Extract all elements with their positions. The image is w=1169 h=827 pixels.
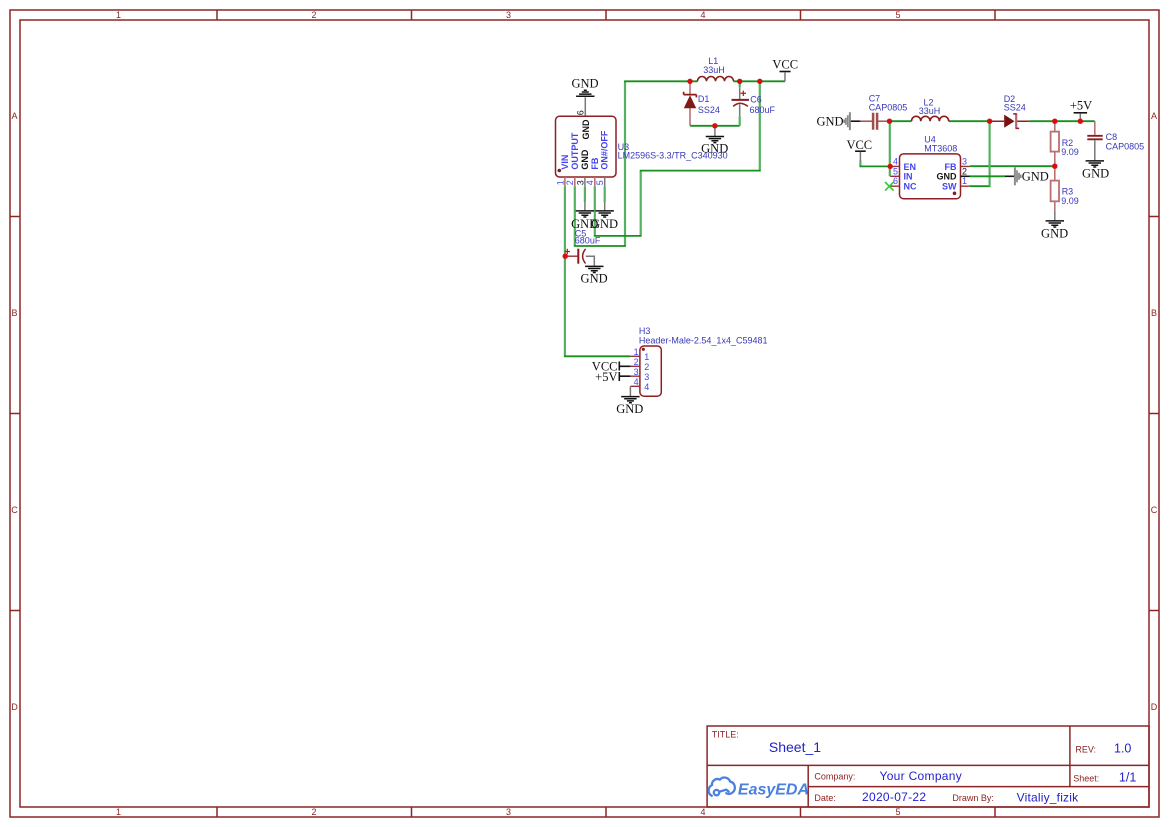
inductor L2 33uH — [912, 98, 949, 122]
svg-text:+5V: +5V — [595, 370, 617, 384]
svg-text:33uH: 33uH — [703, 65, 725, 75]
power flag VCC top — [772, 57, 798, 81]
svg-text:A: A — [1151, 111, 1157, 121]
svg-text:2: 2 — [565, 180, 575, 185]
junction FB R2 R3 node — [1052, 164, 1057, 169]
svg-text:GND: GND — [1041, 227, 1068, 241]
wire L2 to D2 — [949, 120, 990, 122]
inductor L1 33uH — [698, 56, 734, 81]
svg-text:3: 3 — [634, 367, 639, 377]
wire top rail L1 right to VCC — [733, 80, 785, 82]
svg-text:3: 3 — [575, 180, 585, 185]
wire GND pin2 of U4 — [970, 175, 1014, 177]
svg-text:1: 1 — [962, 176, 967, 186]
diode D2 SS24 — [990, 94, 1030, 129]
svg-text:A: A — [11, 111, 17, 121]
svg-text:5: 5 — [895, 807, 900, 817]
svg-text:NC: NC — [904, 182, 917, 192]
junction +5V tap — [1078, 119, 1083, 124]
diode D1 SS24 — [684, 81, 720, 126]
title block — [707, 726, 1149, 807]
svg-text:C: C — [1151, 505, 1158, 515]
capacitor C6 680uF — [732, 81, 776, 126]
junction C7 L2 node — [887, 119, 892, 124]
resistor R3 9.09 — [1051, 166, 1079, 211]
svg-text:VIN: VIN — [560, 155, 570, 170]
svg-text:3: 3 — [506, 10, 511, 20]
wire pin3 of U3 to ground — [584, 186, 586, 202]
svg-text:33uH: 33uH — [919, 106, 941, 116]
svg-text:2020-07-22: 2020-07-22 — [862, 790, 926, 804]
svg-text:EasyEDA: EasyEDA — [738, 781, 809, 798]
svg-text:MT3608: MT3608 — [924, 143, 957, 153]
junction L1 right C6 — [737, 79, 742, 84]
connector H3 Header-Male-2.54_1x4 — [630, 326, 767, 396]
junction L2 D2 SW node — [987, 119, 992, 124]
svg-text:6: 6 — [893, 176, 898, 186]
ground under U3 pin 3 — [571, 202, 598, 231]
wire FB to R2 R3 node — [970, 165, 1055, 167]
svg-text:GND: GND — [817, 114, 844, 128]
svg-text:SW: SW — [942, 182, 957, 192]
svg-text:SS24: SS24 — [698, 105, 720, 115]
svg-text:FB: FB — [590, 157, 600, 169]
svg-text:VCC: VCC — [846, 138, 872, 152]
svg-text:680uF: 680uF — [750, 105, 776, 115]
svg-text:GND: GND — [701, 142, 728, 156]
svg-text:VCC: VCC — [772, 57, 798, 71]
ground under C8 — [1082, 161, 1109, 181]
svg-text:Sheet_1: Sheet_1 — [769, 739, 821, 755]
wire D1 C6 bottom rail — [690, 125, 740, 127]
wire D2 to C8 output rail — [1029, 120, 1094, 122]
svg-text:Date:: Date: — [814, 793, 836, 803]
svg-text:9.09: 9.09 — [1061, 196, 1079, 206]
svg-text:4: 4 — [700, 10, 705, 20]
wire C7 node down to EN and IN — [889, 121, 891, 176]
svg-text:3: 3 — [962, 156, 967, 166]
svg-text:H3: H3 — [639, 326, 651, 336]
svg-text:1: 1 — [555, 180, 565, 185]
net port GND at C7 — [817, 112, 861, 130]
svg-text:TITLE:: TITLE: — [712, 730, 739, 740]
ground under U3 pin 5 — [591, 202, 618, 231]
svg-text:2: 2 — [311, 807, 316, 817]
svg-text:1: 1 — [116, 807, 121, 817]
capacitor C8 CAP0805 — [1087, 121, 1144, 161]
junction R2 top node — [1052, 119, 1057, 124]
svg-text:ON#/OFF: ON#/OFF — [600, 130, 610, 170]
svg-text:GND: GND — [591, 217, 618, 231]
junction VIN-C5 — [563, 254, 568, 259]
net port GND at U4 pin2 — [1015, 167, 1049, 185]
wire SW riser — [970, 121, 991, 186]
svg-text:B: B — [1151, 308, 1157, 318]
junction L1 left D1 — [687, 79, 692, 84]
svg-text:1: 1 — [116, 10, 121, 20]
svg-text:4: 4 — [585, 180, 595, 185]
svg-text:1: 1 — [644, 352, 649, 362]
svg-text:GND: GND — [1082, 167, 1109, 181]
svg-text:GND: GND — [581, 272, 608, 286]
svg-text:D1: D1 — [698, 94, 710, 104]
net label VCC at H3 pin2 — [592, 359, 631, 373]
svg-text:1: 1 — [634, 347, 639, 357]
svg-text:1.0: 1.0 — [1114, 742, 1131, 756]
svg-text:5: 5 — [895, 10, 900, 20]
svg-text:OUTPUT: OUTPUT — [570, 132, 580, 170]
ground at C5 — [581, 266, 608, 285]
svg-text:5: 5 — [595, 180, 605, 185]
svg-text:GND: GND — [580, 149, 590, 170]
svg-text:3: 3 — [506, 807, 511, 817]
wire VCC to EN — [860, 160, 891, 166]
svg-text:5: 5 — [893, 166, 898, 176]
svg-text:Your Company: Your Company — [880, 769, 963, 783]
U4 no-connect cross — [885, 182, 894, 191]
svg-text:C: C — [11, 505, 18, 515]
svg-text:B: B — [11, 308, 17, 318]
ground at H3 pin4 — [616, 386, 643, 416]
svg-text:4: 4 — [634, 377, 639, 387]
svg-text:D: D — [11, 702, 18, 712]
svg-text:D: D — [1151, 702, 1158, 712]
IC U3 LM2596S-3.3 — [555, 110, 727, 186]
svg-text:4: 4 — [644, 382, 649, 392]
svg-text:C6: C6 — [750, 95, 762, 105]
wire pin5 of U3 to ground — [604, 186, 606, 202]
capacitor C5 680uF — [565, 228, 601, 265]
svg-text:Header-Male-2.54_1x4_C59481: Header-Male-2.54_1x4_C59481 — [639, 335, 768, 345]
wire VIN pin1 of U3 down to header pin1 — [564, 186, 630, 356]
svg-text:3: 3 — [644, 372, 649, 382]
junction VCC tap — [757, 79, 762, 84]
svg-text:9.09: 9.09 — [1061, 147, 1079, 157]
IC U4 MT3608 — [885, 135, 970, 199]
ground under D1 C6 rail — [701, 126, 728, 156]
capacitor C7 CAP0805 — [860, 94, 907, 130]
svg-text:Drawn By:: Drawn By: — [952, 793, 994, 803]
svg-text:FB: FB — [945, 162, 957, 172]
svg-text:IN: IN — [904, 172, 913, 182]
svg-text:GND: GND — [616, 402, 643, 416]
svg-text:SS24: SS24 — [1004, 102, 1026, 112]
svg-text:4: 4 — [893, 156, 898, 166]
svg-text:2: 2 — [634, 357, 639, 367]
ground under R3 — [1041, 211, 1068, 241]
svg-text:CAP0805: CAP0805 — [1106, 141, 1145, 151]
svg-text:2: 2 — [644, 362, 649, 372]
svg-text:+5V: +5V — [1070, 98, 1092, 112]
power flag +5V — [1070, 98, 1092, 121]
net label +5V at H3 pin3 — [595, 370, 630, 384]
resistor R2 9.09 — [1051, 121, 1079, 166]
svg-text:GND: GND — [581, 119, 591, 140]
svg-text:CAP0805: CAP0805 — [869, 102, 908, 112]
svg-text:4: 4 — [700, 807, 705, 817]
junction EN node — [888, 164, 893, 169]
svg-text:2: 2 — [311, 10, 316, 20]
EasyEDA logo — [709, 778, 735, 796]
ground above U3 pin 6 — [571, 76, 598, 116]
svg-text:6: 6 — [576, 110, 586, 115]
svg-text:REV:: REV: — [1075, 745, 1096, 755]
junction ground tap bottom rail — [712, 123, 717, 128]
svg-text:1/1: 1/1 — [1119, 770, 1136, 784]
svg-text:EN: EN — [904, 162, 917, 172]
wire C7 to L2 — [890, 120, 912, 122]
svg-text:2: 2 — [962, 166, 967, 176]
wire FB pin4 of U3 to output node — [594, 81, 761, 236]
svg-text:Company:: Company: — [814, 772, 855, 782]
svg-text:GND: GND — [937, 172, 958, 182]
svg-text:Vitaliy_fizik: Vitaliy_fizik — [1017, 790, 1080, 804]
wire OUTPUT pin2 of U3 up to L1 left node — [574, 81, 698, 246]
svg-text:GND: GND — [1022, 169, 1049, 183]
svg-text:680uF: 680uF — [575, 236, 601, 246]
svg-text:GND: GND — [571, 76, 598, 90]
svg-text:Sheet:: Sheet: — [1073, 773, 1099, 783]
power flag VCC at U4 — [846, 138, 872, 161]
